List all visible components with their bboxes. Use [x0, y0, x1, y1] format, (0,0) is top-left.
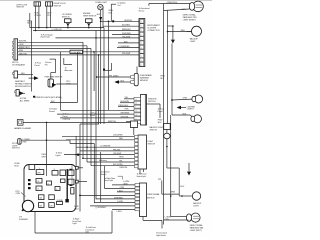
node to-ignition-coil tap [101, 1, 139, 22]
text to dimmer switch [101, 170, 110, 175]
wire lp5 y150.9 [80, 124, 135, 212]
wire GRN/YEL with inline connector [18, 50, 139, 54]
wire long BLK feed y102.5 [50, 101, 77, 103]
svg-text:L.BLU/RED: L.BLU/RED [113, 135, 123, 137]
wire t1 [112, 184, 135, 186]
wire ORN/LT.BLU to right front lamp [139, 2, 194, 13]
svg-text:LT.GRN/RED: LT.GRN/RED [119, 46, 131, 48]
svg-text:( ) GRN/YEL: ( ) GRN/YEL [100, 146, 111, 148]
wire cluster pin 7 GRN/YEL [103, 25, 139, 27]
wire cluster pin 6 BLU/RED [96, 29, 139, 31]
fuse F6 [39, 195, 45, 200]
svg-text:RED/YEL: RED/YEL [19, 53, 28, 55]
fuse F8 [49, 195, 55, 200]
svg-text:3: 3 [141, 43, 142, 45]
wire ignition pin GRY/YEL long [60, 116, 134, 118]
text PNK/BLK mid right [160, 76, 165, 80]
fuse F14 [47, 181, 52, 185]
wire ignition pin PNK long [61, 109, 135, 111]
svg-text:Sound: Sound [49, 111, 54, 113]
wire L.GRN/ORN to left lamp [164, 216, 189, 220]
wire cluster pin 5 BRN/WHT [112, 33, 139, 35]
svg-text:light: light [86, 231, 90, 234]
wire hazard to light switch BRN/YEL [23, 121, 131, 123]
svg-text:ORN/LT.BLU: ORN/LT.BLU [167, 2, 178, 4]
wire RED/WHT drop to fuse box [42, 122, 47, 176]
wire t2 [104, 166, 135, 189]
wire YEL/WHT [18, 53, 139, 55]
wire ignition pin WHT/PNK long [57, 113, 134, 115]
switch S5 power seat [45, 52, 78, 103]
svg-text:SWITCH: SWITCH [148, 143, 156, 145]
connector P2 courtesy feed [15, 90, 25, 96]
svg-text:RED: RED [23, 141, 28, 143]
wire light switch drops [140, 169, 144, 174]
switch S3 oil pressure switch [62, 14, 73, 28]
svg-text:6: 6 [141, 30, 142, 32]
fuse F5 [68, 179, 74, 186]
text to right rear directional light [104, 176, 130, 185]
svg-text:SWITCH: SWITCH [148, 101, 156, 103]
svg-text:PPL (4WD): PPL (4WD) [109, 75, 119, 77]
wire t4 [79, 195, 135, 197]
wire GRN to lamp L2 [164, 9, 190, 11]
wire cluster drop to sensor [136, 67, 138, 74]
switch S2 right door switch [46, 2, 67, 8]
fuse box left pin column [28, 179, 31, 189]
svg-text:SWITCH: SWITCH [12, 148, 20, 150]
wire BLK/YEL [18, 41, 83, 43]
text license lights [187, 106, 196, 110]
svg-text:DOOR ALARM: DOOR ALARM [12, 63, 25, 66]
svg-text:BLU: BLU [181, 186, 185, 188]
svg-text:Lights: Lights [56, 154, 61, 157]
svg-text:LIGHTS: LIGHTS [187, 109, 195, 111]
svg-text:( )ORN/WHT: ( )ORN/WHT [96, 207, 108, 209]
svg-text:Light Switch: Light Switch [156, 234, 166, 237]
svg-text:WHT/RED: WHT/RED [114, 197, 123, 199]
svg-text:15: 15 [47, 183, 49, 185]
svg-text:SWITCH: SWITCH [62, 17, 70, 19]
svg-text:Switch: Switch [101, 173, 106, 176]
wire t7 GRN/WHT [90, 206, 135, 209]
fuse F11 vertical [71, 188, 74, 194]
connector J2 instrument cluster [139, 19, 145, 67]
svg-text:LIGHT (LEFT): LIGHT (LEFT) [190, 230, 202, 232]
svg-text:Panel: Panel [90, 115, 95, 117]
svg-text:(Tank Unit): (Tank Unit) [41, 36, 50, 39]
connector notch on fuse box top [29, 165, 35, 170]
lamp L4 license light 1 [172, 95, 203, 103]
node to fuse panel upper tap [29, 63, 43, 80]
svg-text:BLK (GRN): BLK (GRN) [113, 164, 123, 166]
svg-text:10: 10 [56, 189, 58, 191]
fuse F3 [60, 170, 66, 176]
svg-text:BLK/YEL: BLK/YEL [19, 41, 28, 43]
svg-text:GRY/YEL: GRY/YEL [121, 116, 130, 118]
node to fuel gauge tank unit [41, 34, 97, 38]
wire bus F x101 [100, 28, 102, 124]
sensor B1 dual brake warning [131, 73, 153, 85]
fuse F4 edge [68, 169, 74, 176]
svg-text:DOME LIGHT: DOME LIGHT [95, 2, 108, 4]
fuse F16 [61, 179, 66, 183]
svg-text:BRN/LT.BLU: BRN/LT.BLU [19, 47, 30, 49]
wire bus H1 [30, 27, 104, 29]
svg-text:BLU/RED: BLU/RED [122, 25, 131, 27]
wire ignition pin 7 [126, 121, 134, 123]
node to alternator [64, 58, 73, 72]
svg-text:DOME: DOME [57, 200, 63, 202]
svg-text:PPL/WHT: PPL/WHT [122, 53, 131, 55]
svg-text:BRN/WHT: BRN/WHT [122, 29, 132, 31]
svg-text:LIGHT (RIGHT): LIGHT (RIGHT) [183, 19, 196, 21]
wire BRN/LT.BLU [18, 47, 91, 49]
svg-text:Sensor: Sensor [139, 10, 145, 13]
wire thick inside fuse box [65, 169, 68, 202]
wire bus A x83 [82, 42, 84, 159]
svg-text:To Battery: To Battery [99, 159, 108, 162]
text seat belt retract switch [15, 80, 32, 88]
fuse F12 [36, 179, 42, 184]
svg-text:LBLU: LBLU [74, 209, 79, 211]
wire fuse box bottom run to turn signal [35, 211, 112, 233]
svg-text:GRN: GRN [181, 9, 186, 11]
connector nub fuse box right lower [75, 180, 87, 183]
wire right door switch to bus [46, 6, 52, 28]
fuse F13 [36, 186, 42, 191]
fuse F15 [55, 187, 60, 191]
svg-text:Light: Light [73, 222, 77, 225]
switch S6 stop light switch [12, 139, 30, 150]
wire ignition pin YEL [124, 97, 134, 99]
wire cluster pin 1 LT.GRN/RED [122, 53, 131, 55]
text to fuse panel center [90, 113, 98, 117]
svg-text:7: 7 [141, 26, 142, 28]
wire ORN [18, 44, 87, 46]
svg-text:WHT/PNK: WHT/PNK [121, 113, 130, 115]
relay K1 hazard flasher [14, 120, 32, 131]
svg-text:L.GRN: L.GRN [117, 201, 123, 203]
svg-text:RED/YEL: RED/YEL [120, 167, 129, 169]
node ignition to fuse panel tap [147, 104, 166, 124]
wire cluster pin 2 BLK [117, 46, 139, 48]
switch S7 backup light switch [150, 124, 171, 139]
lamp L1 dome light [95, 2, 108, 10]
svg-text:Direct. light: Direct. light [104, 179, 113, 182]
svg-text:SWITCH: SWITCH [16, 7, 24, 9]
wire cluster tap to bus [103, 63, 112, 71]
svg-text:L.BLU: L.BLU [118, 190, 124, 192]
ground G1 right upper [168, 25, 175, 43]
text key warning door alarm [12, 62, 25, 66]
wire cluster pin 3 YEL/WHT [118, 41, 139, 43]
text PPL/ORN outside left [16, 191, 26, 197]
lamp L2 directional park turn right [183, 1, 204, 21]
svg-text:YEL/WHT: YEL/WHT [113, 153, 122, 155]
svg-text:ORN: ORN [120, 187, 125, 189]
svg-text:LT BLU: LT BLU [35, 15, 42, 17]
connector J5 turn signal switch [135, 183, 161, 217]
svg-text:PPL/YEL: PPL/YEL [113, 149, 122, 151]
svg-text:LIGHT: LIGHT [193, 206, 199, 208]
wire RED/BLK keyswitch feed [27, 13, 32, 92]
connector J4 light switch feed pin [131, 121, 138, 135]
wire cluster pin 4 WHT/RED [95, 36, 139, 38]
connector P1 buzzer [13, 71, 33, 78]
svg-text:8: 8 [141, 22, 142, 24]
wire feed down to PNK [60, 52, 62, 111]
svg-text:GRN/YEL: GRN/YEL [124, 20, 133, 22]
fuse F2 [52, 169, 58, 175]
switch S4 engine temp switch [83, 13, 97, 28]
connector J3 ignition switch [134, 95, 147, 126]
fuse F7 [39, 203, 45, 208]
wire right vertical R2 [167, 11, 169, 124]
fuse F1 lamp [36, 168, 44, 174]
wire bus H2 GRN(10) [33, 29, 96, 31]
wire lp9 y165.7 [91, 159, 135, 169]
wire stop light run [21, 139, 94, 203]
svg-text:5: 5 [141, 35, 142, 37]
svg-text:GRN: GRN [183, 97, 188, 99]
wire step jog y139.8 [66, 138, 135, 140]
text ignition switch label [148, 98, 157, 102]
svg-text:SWITCH: SWITCH [54, 5, 62, 7]
wire PPL stub to backup feed [158, 179, 179, 194]
wire bus E x98.5 [98, 55, 100, 124]
svg-text:INTERIOR LIGHTS (HOT AT ALL): INTERIOR LIGHTS (HOT AT ALL) [34, 96, 63, 99]
connector J1 bulkhead strip [13, 39, 18, 60]
text to right front park light [73, 217, 83, 225]
svg-text:BRN: BRN [171, 191, 176, 193]
svg-text:PWR SEAT SWITCH: PWR SEAT SWITCH [45, 76, 63, 79]
text interior lights row [34, 96, 63, 99]
svg-text:ORN: ORN [16, 193, 21, 195]
wire drop x108 to brake sensor [108, 21, 110, 111]
wire PPL 4WD to sensor [96, 75, 131, 77]
lamp L3 backup light right [187, 26, 202, 43]
text to radio sound [49, 109, 57, 113]
fuse F9 [49, 203, 55, 208]
text to left front directional light [86, 226, 97, 234]
svg-text:LIGHT: LIGHT [190, 41, 196, 43]
wire bus C x91 [90, 49, 92, 166]
wire t6 L.GRN [94, 152, 135, 203]
lamp L5 license light 2 [172, 106, 202, 123]
wire backup switch drop [166, 139, 179, 196]
svg-text:ALL TIMES: ALL TIMES [20, 99, 30, 102]
svg-text:( ) GRN (10): ( ) GRN (10) [52, 29, 62, 31]
connector nub fuse box right upper [75, 166, 83, 169]
wire inner vertical x72 [71, 165, 73, 186]
svg-text:FUSE LINK: FUSE LINK [71, 52, 81, 54]
wire left lamp feed from R1 [170, 115, 187, 217]
svg-text:SENSOR: SENSOR [140, 80, 149, 82]
wire to pwr seat feed bracket [45, 59, 56, 79]
svg-text:RED: RED [119, 138, 124, 140]
svg-text:L.BLU: L.BLU [117, 211, 123, 213]
switch S1 left door switch [16, 2, 40, 9]
wire BLK to sensor with arrow [114, 80, 130, 84]
svg-text:Alternator: Alternator [65, 69, 73, 72]
wire to backup light right [168, 30, 192, 32]
wire ignition pin BLK/GRN [120, 101, 134, 103]
svg-text:4: 4 [141, 39, 142, 41]
wire lp6 to horn lights y154.6 [56, 152, 135, 157]
wire stub y124 [80, 123, 99, 125]
wire t3 [117, 190, 135, 192]
wire lp7 y158.3 [83, 157, 135, 159]
svg-text:RED/L.BLU: RED/L.BLU [119, 105, 129, 107]
text to left door switch light [137, 172, 147, 177]
switch S8 light switch [135, 135, 156, 169]
wire bus G x104 [103, 28, 105, 124]
wire dome light drop with arrow [97, 10, 102, 29]
wire right vertical R1 [163, 4, 165, 225]
svg-text:Panel: Panel [35, 65, 40, 67]
svg-text:ORN: ORN [19, 44, 24, 46]
wire lp8 y162 [87, 160, 135, 162]
svg-text:TURN SIGNAL: TURN SIGNAL [147, 193, 161, 196]
svg-text:KEY/IGN SWITCH: KEY/IGN SWITCH [15, 86, 31, 88]
wire bus B x87 [86, 46, 88, 162]
svg-text:10: 10 [141, 60, 143, 62]
wire step jog y136.3 [62, 135, 135, 137]
svg-text:BLK/GRN: BLK/GRN [121, 101, 130, 103]
svg-text:BRN: BRN [19, 50, 24, 52]
svg-text:ORN: ORN [165, 219, 170, 221]
wire t5 WHT/RED [96, 197, 135, 199]
junction block x78 y158 [77, 154, 79, 156]
relay K2 turn signal flasher [19, 200, 34, 221]
svg-text:RED: RED [181, 30, 186, 32]
wire dome light second leg [102, 8, 104, 27]
fuse F10 dome [57, 200, 64, 205]
text instrument cluster connector label [147, 25, 160, 32]
lamp L6 backup light left [171, 186, 202, 208]
svg-text:HAZARD FLASHER: HAZARD FLASHER [14, 127, 32, 130]
svg-text:CONNECTOR: CONNECTOR [147, 30, 160, 32]
wire lp4 y147.2 [76, 136, 134, 199]
svg-text:SWITCH: SWITCH [147, 198, 155, 200]
svg-text:1: 1 [141, 52, 142, 54]
svg-text:2: 2 [141, 47, 142, 49]
svg-text:9: 9 [141, 56, 142, 58]
wire t8 L.BLU [112, 209, 135, 213]
svg-text:SWITCH: SWITCH [150, 130, 158, 132]
fuse box FB1 outline [15, 163, 77, 212]
svg-text:GRN: GRN [119, 157, 124, 159]
svg-text:Switch light: Switch light [137, 175, 147, 178]
ground G2 right lower [187, 163, 191, 176]
text hot at all times [20, 96, 35, 103]
text wht/lblu bottom [74, 206, 79, 210]
text to fuse panel lighting [63, 114, 71, 121]
node turn signal bottom tap [143, 217, 168, 238]
svg-text:BRN/YEL: BRN/YEL [108, 121, 117, 123]
page top border [0, 0, 212, 2]
wire left door switch to bus [35, 6, 42, 31]
svg-text:YEL/WHT: YEL/WHT [122, 36, 131, 38]
svg-text:TEMP SWITCH: TEMP SWITCH [83, 15, 97, 17]
wire bus D x96 [95, 31, 97, 200]
svg-text:FLASHER: FLASHER [19, 218, 28, 221]
svg-text:WHT/RED: WHT/RED [122, 33, 131, 35]
wire right vertical R3 license feed [171, 44, 173, 116]
wire drop x94 upper [93, 52, 95, 91]
wire ignition pin RED/LT.BLU [118, 105, 134, 107]
lamp L7 directional park tail left [186, 213, 204, 232]
